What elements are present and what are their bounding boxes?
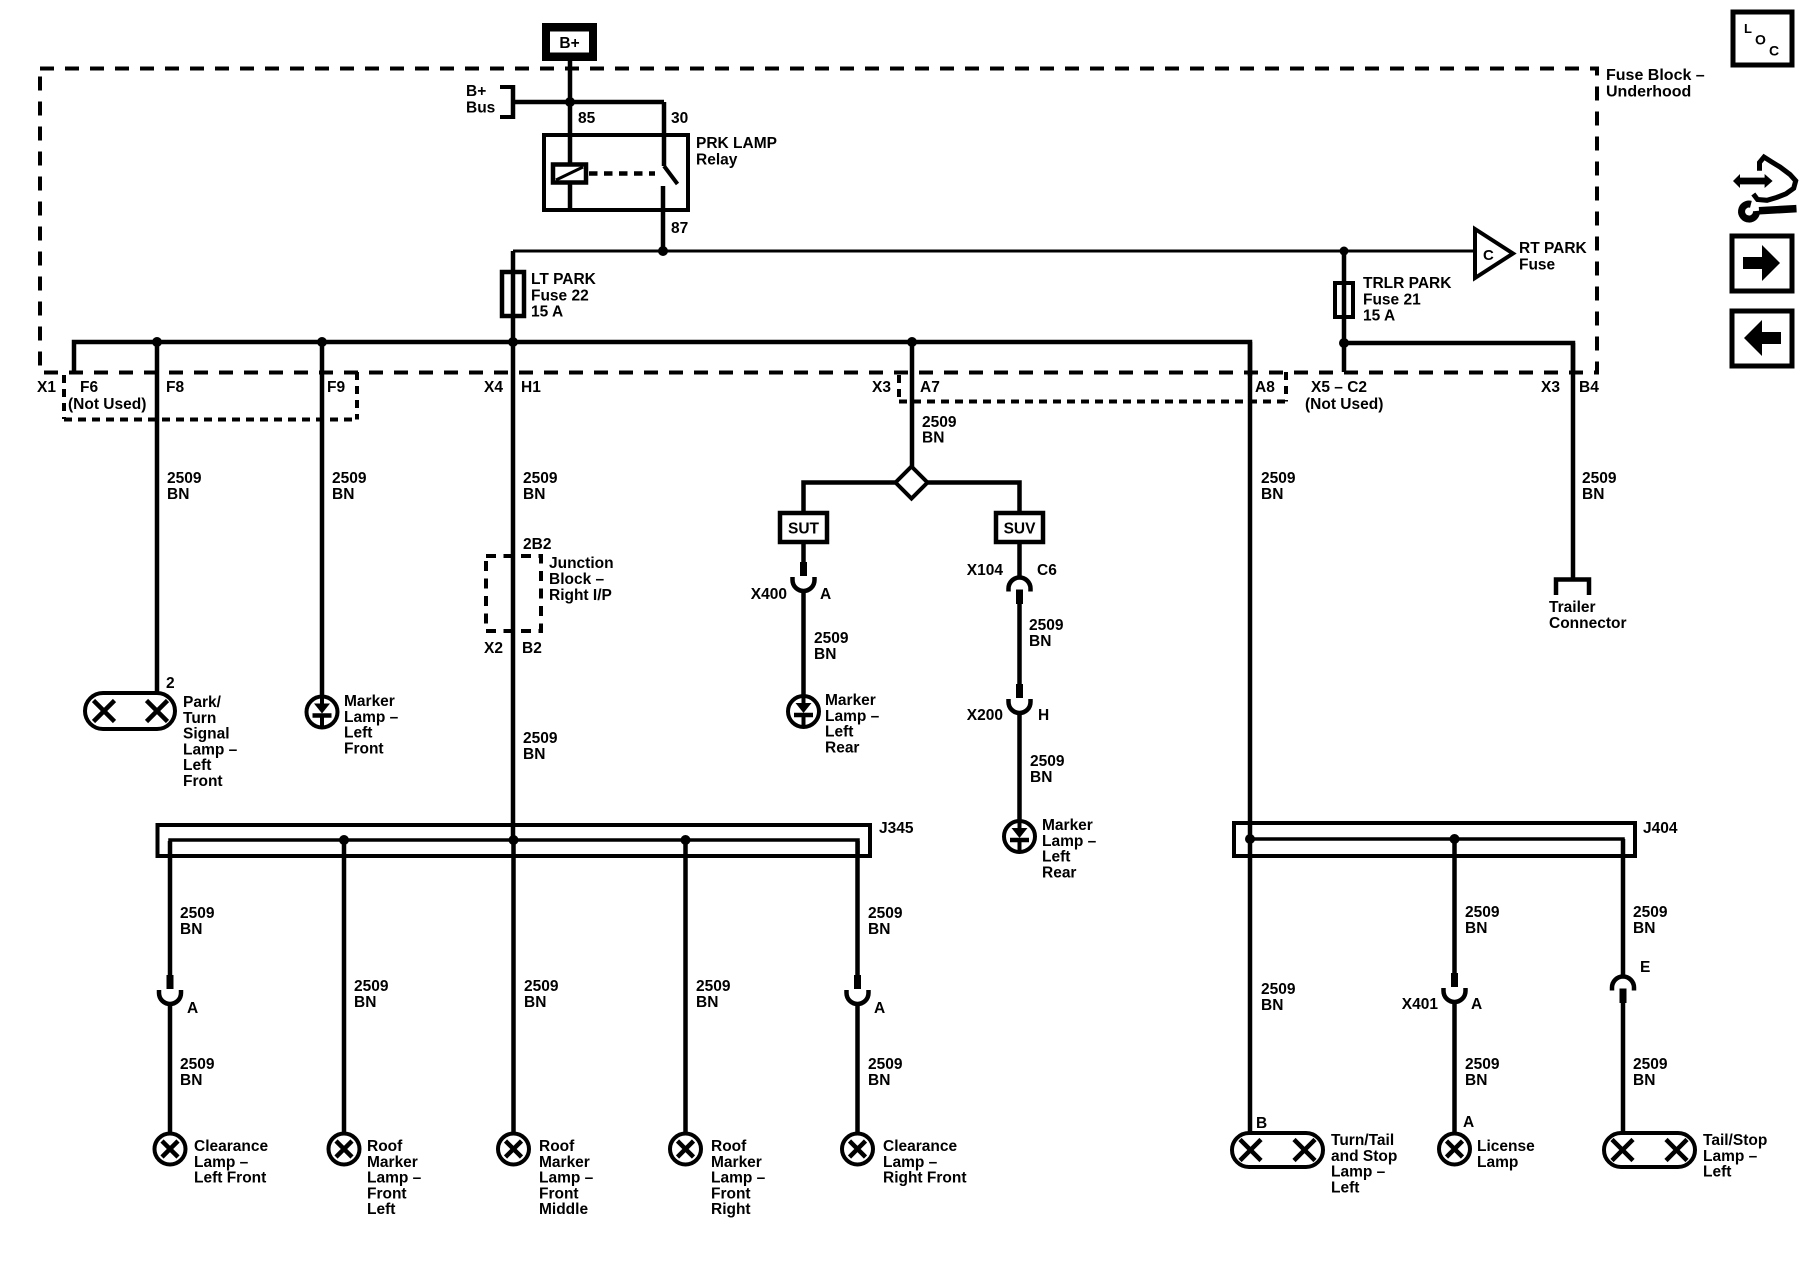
dashed strip right edge A8 <box>1284 372 1288 402</box>
lamp Roof Marker Lamp - Front Right <box>670 1134 701 1165</box>
svg-text:Underhood: Underhood <box>1606 84 1691 101</box>
separator dashed X1/F6 <box>62 375 66 419</box>
svg-text:Fuse: Fuse <box>1519 256 1556 273</box>
svg-text:Marker: Marker <box>711 1154 762 1171</box>
svg-text:Turn: Turn <box>183 710 216 727</box>
svg-text:BN: BN <box>1261 486 1283 503</box>
svg-text:PRK LAMP: PRK LAMP <box>696 135 777 152</box>
svg-text:Lamp –: Lamp – <box>183 741 238 758</box>
svg-text:A: A <box>874 1000 885 1017</box>
svg-text:Left: Left <box>1042 849 1070 866</box>
svg-text:BN: BN <box>1633 1072 1655 1089</box>
wire F8 down 2509 BN <box>155 342 160 693</box>
svg-text:Relay: Relay <box>696 152 738 169</box>
power symbol B+ <box>542 23 597 61</box>
svg-text:X401: X401 <box>1402 996 1439 1013</box>
junction 87 feed <box>658 246 668 256</box>
svg-text:Front: Front <box>344 740 384 757</box>
lamp Marker Lamp - Left Front <box>307 697 338 728</box>
svg-text:Fuse 22: Fuse 22 <box>531 287 589 304</box>
relay switch blade <box>664 166 678 184</box>
wire H1 down 2509 BN to J345 <box>511 342 516 840</box>
svg-text:BN: BN <box>523 486 545 503</box>
svg-text:A: A <box>820 586 831 603</box>
svg-text:Rear: Rear <box>825 739 859 756</box>
wire J345 branch4 2509 BN <box>683 841 688 1134</box>
wire to tail/stop lamp 2509 BN <box>1621 1003 1626 1134</box>
svg-text:Roof: Roof <box>711 1138 747 1155</box>
wire J404 branch1 2509 BN <box>1248 839 1253 1134</box>
svg-text:2509: 2509 <box>696 978 731 995</box>
svg-text:BN: BN <box>180 921 202 938</box>
inline connector X401 pin A <box>1444 973 1466 1002</box>
svg-text:F9: F9 <box>327 379 345 396</box>
junction TRLR PARK tap <box>1340 247 1349 256</box>
svg-text:Marker: Marker <box>539 1154 590 1171</box>
svg-text:BN: BN <box>524 994 546 1011</box>
svg-text:O: O <box>1755 32 1766 48</box>
svg-text:X3: X3 <box>1541 379 1560 396</box>
connector J404 outer box <box>1234 823 1635 856</box>
wire A8 down 2509 BN to J404 <box>1248 342 1253 839</box>
B+ Bus tap bracket <box>500 85 513 119</box>
svg-text:Lamp –: Lamp – <box>344 709 399 726</box>
svg-text:L: L <box>1744 21 1752 36</box>
wire splice to SUV <box>928 483 1020 514</box>
svg-text:SUT: SUT <box>788 521 820 538</box>
svg-text:BN: BN <box>523 746 545 763</box>
wire J345 branch5 2509 BN <box>855 841 860 975</box>
dashed strip bottom A7-A8 <box>899 400 1286 404</box>
wire B4 down 2509 BN to trailer connector <box>1571 343 1576 579</box>
svg-text:Marker: Marker <box>344 693 395 710</box>
relay PRK LAMP Relay box <box>544 135 688 210</box>
dashed strip bottom F6-F9 <box>64 418 357 422</box>
lamp Turn/Tail and Stop Lamp - Left <box>1232 1133 1323 1167</box>
svg-text:2509: 2509 <box>524 978 559 995</box>
svg-text:2509: 2509 <box>1633 904 1668 921</box>
svg-text:J404: J404 <box>1643 820 1678 837</box>
svg-text:X5 – C2: X5 – C2 <box>1311 379 1367 396</box>
wire into TRLR PARK fuse <box>1342 251 1347 372</box>
svg-text:2509: 2509 <box>868 905 903 922</box>
connector J345 inner bus <box>170 840 858 856</box>
svg-text:BN: BN <box>696 994 718 1011</box>
wire F9 down 2509 BN <box>320 342 325 697</box>
svg-text:BN: BN <box>868 921 890 938</box>
svg-text:2509: 2509 <box>1465 904 1500 921</box>
svg-text:and Stop: and Stop <box>1331 1148 1397 1165</box>
svg-text:A: A <box>1471 996 1482 1013</box>
junction J345 branch 3 <box>509 835 519 845</box>
svg-text:BN: BN <box>1465 1072 1487 1089</box>
svg-text:BN: BN <box>1465 920 1487 937</box>
icon arrow right box <box>1732 236 1792 291</box>
wire X401 to license lamp 2509 BN <box>1452 1002 1457 1134</box>
relay coil <box>553 165 586 183</box>
svg-text:2509: 2509 <box>1030 753 1065 770</box>
svg-text:J345: J345 <box>879 820 914 837</box>
svg-text:H1: H1 <box>521 379 541 396</box>
svg-text:30: 30 <box>671 110 688 127</box>
svg-text:Marker: Marker <box>1042 817 1093 834</box>
svg-text:BN: BN <box>1261 997 1283 1014</box>
svg-text:X4: X4 <box>484 379 503 396</box>
junction J345 branch 2 <box>339 835 349 845</box>
lamp Roof Marker Lamp - Front Middle <box>498 1134 529 1165</box>
wire B+ Bus to relay pin 30 <box>513 100 664 105</box>
wire J404 branch3 2509 BN <box>1621 839 1626 977</box>
svg-text:Lamp –: Lamp – <box>1331 1164 1386 1181</box>
wire J345 branch3 2509 BN <box>511 841 516 1134</box>
svg-text:Right Front: Right Front <box>883 1170 967 1187</box>
svg-text:2509: 2509 <box>814 630 849 647</box>
svg-text:B: B <box>1256 1115 1267 1132</box>
svg-text:Left: Left <box>1703 1164 1731 1181</box>
svg-text:Signal: Signal <box>183 726 230 743</box>
icon arrow left box <box>1732 311 1792 366</box>
svg-text:87: 87 <box>671 220 688 237</box>
svg-text:A: A <box>187 1000 198 1017</box>
wire A7 down 2509 BN <box>910 342 915 467</box>
svg-text:Front: Front <box>539 1185 579 1202</box>
svg-text:2509: 2509 <box>523 470 558 487</box>
svg-text:B+: B+ <box>559 35 579 52</box>
bus wire from LT PARK fuse across fuse block <box>74 342 1250 376</box>
svg-text:BN: BN <box>167 486 189 503</box>
connector J404 inner bus <box>1247 839 1623 856</box>
lamp Park/Turn Signal Lamp - Left Front <box>85 693 175 729</box>
relay actuation dashed link <box>589 171 655 176</box>
svg-text:Front: Front <box>711 1185 751 1202</box>
junction J345 branch 4 <box>681 835 691 845</box>
svg-text:2509: 2509 <box>180 1056 215 1073</box>
wire splice to SUT <box>804 483 896 514</box>
svg-text:Front: Front <box>367 1185 407 1202</box>
fuse TRLR PARK Fuse 21 15 A <box>1335 283 1353 317</box>
svg-text:Lamp –: Lamp – <box>539 1170 594 1187</box>
svg-text:2509: 2509 <box>167 470 202 487</box>
svg-text:2509: 2509 <box>1029 617 1064 634</box>
wire relay pin 87 down <box>661 186 666 251</box>
wire B+ to relay pin 85 <box>568 61 573 166</box>
svg-text:H: H <box>1038 707 1049 724</box>
svg-text:BN: BN <box>354 994 376 1011</box>
wire SUT to X400 <box>801 542 806 562</box>
wire SUV to X104 <box>1017 542 1022 578</box>
svg-text:Roof: Roof <box>367 1138 403 1155</box>
svg-text:A: A <box>1463 1114 1474 1131</box>
svg-text:Fuse Block –: Fuse Block – <box>1606 67 1705 84</box>
svg-text:85: 85 <box>578 110 596 127</box>
svg-text:TRLR PARK: TRLR PARK <box>1363 275 1452 292</box>
svg-text:Marker: Marker <box>367 1154 418 1171</box>
svg-text:X3: X3 <box>872 379 891 396</box>
svg-text:2509: 2509 <box>332 470 367 487</box>
svg-text:Lamp: Lamp <box>1477 1154 1518 1171</box>
svg-text:2509: 2509 <box>1261 470 1296 487</box>
svg-text:Left Front: Left Front <box>194 1170 266 1187</box>
svg-text:Tail/Stop: Tail/Stop <box>1703 1132 1767 1149</box>
svg-text:Lamp –: Lamp – <box>194 1154 249 1171</box>
svg-text:Left: Left <box>825 724 853 741</box>
svg-text:License: License <box>1477 1138 1535 1155</box>
junction B+ bus / pin85 wire <box>565 97 575 107</box>
svg-text:B4: B4 <box>1579 379 1599 396</box>
svg-text:2: 2 <box>166 675 175 692</box>
svg-text:Lamp –: Lamp – <box>825 708 880 725</box>
inline connector pin A branch5 <box>847 975 869 1004</box>
wire coil to relay frame <box>568 183 573 211</box>
svg-text:Lamp –: Lamp – <box>1042 833 1097 850</box>
junction bus A7 <box>907 337 917 347</box>
svg-text:Left: Left <box>367 1201 395 1218</box>
svg-text:2509: 2509 <box>1261 981 1296 998</box>
wire J404 branch2 2509 BN <box>1452 839 1457 973</box>
wire into LT PARK fuse <box>511 251 516 343</box>
svg-text:Turn/Tail: Turn/Tail <box>1331 1132 1394 1149</box>
svg-text:2509: 2509 <box>1633 1056 1668 1073</box>
lamp Marker Lamp - Left Rear (SUT) <box>788 696 819 727</box>
svg-text:BN: BN <box>1633 920 1655 937</box>
bus wire TRLR PARK fuse to B4 <box>1344 343 1573 372</box>
dashed strip right edge F9 <box>355 372 359 420</box>
svg-text:Lamp –: Lamp – <box>711 1170 766 1187</box>
svg-text:RT PARK: RT PARK <box>1519 240 1588 257</box>
svg-text:Left: Left <box>183 757 211 774</box>
svg-text:(Not Used): (Not Used) <box>68 396 146 413</box>
svg-text:X2: X2 <box>484 640 503 657</box>
option box SUV <box>996 513 1043 542</box>
svg-text:Lamp –: Lamp – <box>1703 1148 1758 1165</box>
wire branch1 to clearance lamp 2509 BN <box>168 1004 173 1134</box>
inline connector X104 pin C6 <box>1009 578 1031 605</box>
fuse block outline (dashed) Fuse Block - Underhood <box>40 69 1597 373</box>
svg-text:Connector: Connector <box>1549 615 1627 632</box>
off-page connector C RT PARK Fuse <box>1475 229 1513 278</box>
svg-text:Bus: Bus <box>466 100 495 117</box>
wire J345 branch1 2509 BN <box>168 841 173 975</box>
wire X104 to X200 2509 BN <box>1017 604 1022 684</box>
svg-text:2509: 2509 <box>523 730 558 747</box>
svg-text:A7: A7 <box>920 379 940 396</box>
inline connector X400 pin A <box>793 562 815 591</box>
svg-text:BN: BN <box>1030 769 1052 786</box>
svg-text:X104: X104 <box>967 562 1004 579</box>
svg-text:Rear: Rear <box>1042 864 1076 881</box>
wire 87 feed to fuses and RT PARK <box>513 250 1475 253</box>
svg-text:15 A: 15 A <box>531 304 563 321</box>
svg-text:2509: 2509 <box>1465 1056 1500 1073</box>
wire X200 to marker lamp 2509 BN <box>1017 713 1022 821</box>
svg-text:B2: B2 <box>522 640 542 657</box>
inline connector pin E <box>1612 977 1634 1004</box>
svg-text:Middle: Middle <box>539 1201 588 1218</box>
svg-text:LT PARK: LT PARK <box>531 271 597 288</box>
svg-text:BN: BN <box>180 1072 202 1089</box>
svg-text:Trailer: Trailer <box>1549 599 1596 616</box>
svg-text:Right: Right <box>711 1201 751 1218</box>
svg-text:Marker: Marker <box>825 692 876 709</box>
svg-text:2509: 2509 <box>1582 470 1617 487</box>
junction bus F9 <box>317 337 327 347</box>
svg-text:BN: BN <box>922 430 944 447</box>
svg-text:A8: A8 <box>1255 379 1275 396</box>
svg-text:Roof: Roof <box>539 1138 575 1155</box>
svg-text:Left: Left <box>344 725 372 742</box>
svg-text:X400: X400 <box>751 586 787 603</box>
svg-text:Right I/P: Right I/P <box>549 587 612 604</box>
junction block dashed box Junction Block - Right I/P <box>486 556 541 631</box>
svg-text:15 A: 15 A <box>1363 308 1395 325</box>
svg-text:Lamp –: Lamp – <box>367 1170 422 1187</box>
svg-text:X1: X1 <box>37 379 56 396</box>
svg-text:E: E <box>1640 959 1650 976</box>
option box SUT <box>780 513 827 542</box>
svg-text:C: C <box>1769 43 1779 59</box>
splice diamond <box>896 467 928 499</box>
svg-text:F8: F8 <box>166 379 184 396</box>
svg-text:BN: BN <box>868 1072 890 1089</box>
svg-text:2509: 2509 <box>868 1056 903 1073</box>
lamp License Lamp <box>1439 1134 1470 1165</box>
svg-text:Block –: Block – <box>549 571 605 588</box>
svg-text:2509: 2509 <box>180 905 215 922</box>
svg-text:Park/: Park/ <box>183 694 222 711</box>
svg-text:2B2: 2B2 <box>523 536 551 553</box>
svg-text:Clearance: Clearance <box>194 1138 268 1155</box>
trailer connector symbol <box>1556 580 1589 596</box>
lamp Clearance Lamp - Left Front <box>155 1134 186 1165</box>
svg-text:C: C <box>1483 247 1494 264</box>
svg-text:BN: BN <box>1582 486 1604 503</box>
svg-text:B+: B+ <box>466 83 486 100</box>
svg-text:F6: F6 <box>80 379 98 396</box>
svg-text:C6: C6 <box>1037 562 1057 579</box>
wire X400 to marker lamp 2509 BN <box>801 591 806 696</box>
junction bus H1 <box>508 337 518 347</box>
icon LOC box <box>1733 12 1792 65</box>
svg-text:X200: X200 <box>967 707 1003 724</box>
separator dashed X3/A7 <box>897 375 901 401</box>
svg-text:Front: Front <box>183 773 223 790</box>
svg-text:Fuse 21: Fuse 21 <box>1363 291 1421 308</box>
svg-text:SUV: SUV <box>1004 521 1037 538</box>
junction bus F8 <box>152 337 162 347</box>
junction J404 branch 1 <box>1245 834 1255 844</box>
wire pin 30 into relay <box>662 102 667 166</box>
svg-text:2509: 2509 <box>922 414 957 431</box>
lamp Clearance Lamp - Right Front <box>842 1134 873 1165</box>
svg-text:Junction: Junction <box>549 555 614 572</box>
svg-text:Lamp –: Lamp – <box>883 1154 938 1171</box>
svg-text:Clearance: Clearance <box>883 1138 957 1155</box>
connector J345 outer box <box>158 825 871 856</box>
svg-text:BN: BN <box>814 646 836 663</box>
lamp Marker Lamp - Left Rear (SUV) <box>1004 821 1035 852</box>
fuse LT PARK Fuse 22 15 A <box>502 272 524 316</box>
svg-text:(Not Used): (Not Used) <box>1305 396 1383 413</box>
wire branch5 to clearance lamp 2509 BN <box>855 1004 860 1134</box>
junction J404 branch 2 <box>1450 834 1460 844</box>
inline connector X200 pin H <box>1009 684 1031 713</box>
svg-text:Left: Left <box>1331 1179 1359 1196</box>
inline connector pin A branch1 <box>159 975 181 1004</box>
lamp Tail/Stop Lamp - Left <box>1604 1133 1695 1167</box>
lamp Roof Marker Lamp - Front Left <box>329 1134 360 1165</box>
junction TRLR fuse output <box>1339 338 1349 348</box>
wire J345 branch2 2509 BN <box>342 841 347 1134</box>
svg-text:2509: 2509 <box>354 978 389 995</box>
svg-text:BN: BN <box>1029 633 1051 650</box>
svg-text:BN: BN <box>332 486 354 503</box>
icon route/wrench glyph <box>1733 157 1797 219</box>
